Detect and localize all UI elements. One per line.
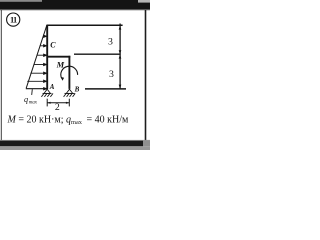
ground extension line right of B <box>85 88 126 90</box>
dimension arrowheads bottom <box>47 102 69 104</box>
svg-text:B: B <box>74 86 80 94</box>
svg-text:q: q <box>24 95 28 104</box>
svg-text:M = 20 кН·м; qmax = 40 кН/м: M = 20 кН·м; qmax = 40 кН/м <box>7 114 130 126</box>
support B (pin) <box>64 89 76 97</box>
top extension line <box>47 24 123 26</box>
top black separator bar <box>0 0 150 10</box>
right dimension line <box>119 24 121 90</box>
arrow 4 <box>34 64 44 66</box>
load base line <box>26 88 47 90</box>
arrow 7 (base, q_max) <box>44 88 47 90</box>
horizontal member C-corner <box>47 56 71 58</box>
bottom dimension line <box>47 102 69 104</box>
right leg corner-B <box>68 56 70 89</box>
distributed load arrows <box>27 35 46 90</box>
support A (pin) <box>41 89 53 97</box>
q_max leader tick <box>31 89 34 95</box>
bottom dimension extension ticks <box>46 99 48 107</box>
arrow 6 <box>27 80 43 82</box>
arrow 5 <box>30 72 43 74</box>
svg-text:max: max <box>29 100 38 105</box>
svg-text:A: A <box>49 83 55 91</box>
moment M arc <box>61 66 78 78</box>
svg-text:3: 3 <box>108 37 113 48</box>
mid extension line <box>74 53 121 55</box>
dimension arrowheads right <box>119 25 122 89</box>
arrow 3 <box>37 54 44 56</box>
svg-text:M: M <box>56 60 65 70</box>
arrow 2 <box>40 45 44 47</box>
column AC (left vertical member) <box>46 25 48 89</box>
arrow 1 <box>43 35 45 37</box>
svg-text:2: 2 <box>55 102 60 113</box>
left column rule <box>0 10 2 140</box>
svg-text:11: 11 <box>10 15 17 25</box>
moment arrowhead <box>61 77 65 81</box>
bottom black separator bar <box>0 139 150 142</box>
svg-text:3: 3 <box>109 69 114 80</box>
load envelope (slanted line) <box>26 25 47 88</box>
right column rule <box>145 10 147 141</box>
problem number circle 11 <box>7 13 20 26</box>
svg-text:C: C <box>50 41 56 50</box>
